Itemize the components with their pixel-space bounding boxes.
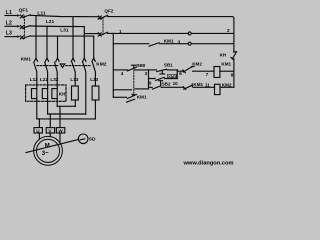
coil KM1 label (221, 62, 231, 67)
breaker QF1 pole 2 (20, 26, 23, 29)
thermal relay KH heater 3 (52, 89, 57, 99)
svg-text:KM1: KM1 (164, 39, 174, 44)
thermal relay KH label (59, 92, 66, 97)
svg-text:SB2: SB2 (162, 81, 171, 86)
contact blade KM1 bottom (127, 99, 135, 102)
terminal V box (46, 128, 54, 133)
wire resistor R1 down (74, 100, 76, 106)
wire drop L11 to KM1 pole1 (35, 17, 37, 59)
motor M outer circle (34, 136, 63, 165)
wire rail bottom stub (113, 96, 126, 98)
svg-text:KM2: KM2 (96, 61, 107, 67)
svg-text:QF2: QF2 (104, 8, 113, 13)
breaker QF2 label (104, 8, 113, 13)
svg-text:KM1: KM1 (137, 94, 147, 99)
wire node1 line (108, 32, 234, 34)
svg-text:KM1: KM1 (221, 62, 231, 67)
contactor KM2 label (96, 61, 107, 67)
contact KH label (220, 52, 227, 57)
wire node3 vertical (148, 70, 150, 89)
resistor R2 (92, 86, 99, 100)
node L31 label (60, 27, 69, 33)
wire left rail (112, 33, 114, 97)
motor M inner circle (36, 139, 59, 162)
node connector circle top (188, 32, 191, 35)
node L3 arrowhead (17, 35, 20, 38)
wire drop L11 to KM2 pole1 (72, 17, 74, 59)
svg-text:L22: L22 (40, 77, 48, 82)
node L11 label (37, 10, 45, 16)
svg-text:L13: L13 (70, 77, 78, 82)
node 8 label (231, 73, 234, 78)
svg-text:L11: L11 (37, 10, 45, 16)
breaker QF1 pole 1 (20, 15, 23, 18)
contactor KM2 pole 2 (83, 58, 86, 61)
label L33 (90, 77, 98, 82)
label L13 (70, 77, 78, 82)
svg-text:9: 9 (149, 81, 152, 86)
contact blade SB0-NO (128, 95, 137, 99)
coil KM2 label (222, 83, 232, 88)
wire top rail to right (108, 17, 234, 53)
contactor KM2 pole 1 (71, 58, 74, 61)
node 6 label (179, 71, 182, 76)
wire drop L31 to KM1 pole3 (57, 36, 59, 58)
svg-text:KM1: KM1 (168, 75, 176, 79)
svg-text:KM2: KM2 (192, 62, 202, 67)
contact KM1 bottom label (137, 94, 147, 99)
svg-text:L3: L3 (6, 31, 12, 37)
wire L21 corner to QF2 feed (84, 27, 99, 59)
button SB2 NO contact (152, 86, 160, 89)
node L3 label (6, 31, 12, 37)
speed relay tick (80, 139, 85, 140)
wire right rail lower (233, 59, 235, 88)
wire L2 feed (5, 25, 17, 27)
node 11 label (205, 83, 210, 88)
node connector circle bottom (188, 42, 191, 45)
button SB1 label (164, 62, 173, 67)
svg-text:2: 2 (227, 28, 230, 33)
svg-text:7: 7 (206, 72, 209, 77)
shaft line to speed relay (26, 139, 78, 152)
node 10 label (173, 81, 179, 86)
wire to terminal W (59, 106, 61, 142)
svg-text:3: 3 (145, 71, 148, 76)
button SB2 label (162, 81, 171, 86)
wire crossover U (37, 118, 96, 120)
breaker QF2 pole 1 (98, 16, 101, 19)
contact KM1 self-hold blade (149, 43, 159, 47)
svg-text:L12: L12 (30, 77, 38, 82)
node 3 label (self-hold) (178, 40, 181, 45)
contact KM1 interlock label (193, 82, 203, 87)
svg-text:3: 3 (178, 40, 181, 45)
node 3 label (145, 71, 148, 76)
node L1 arrowhead (17, 14, 20, 17)
node 2 label (227, 28, 230, 33)
contact KH NC (234, 51, 237, 53)
wire to terminal V (49, 114, 51, 137)
node 7 label (206, 72, 209, 77)
breaker QF2 pole 2 (98, 33, 101, 36)
wire node6 vertical (176, 70, 178, 79)
contactor KM1 pole 1 (34, 58, 37, 61)
svg-text:11: 11 (205, 83, 210, 88)
motor 3~ label (42, 151, 49, 157)
terminal U box (34, 128, 42, 133)
wire self-hold branch (149, 78, 178, 80)
node L2 arrowhead (17, 25, 20, 28)
contact KM1 interlock NC (183, 87, 186, 90)
wire self-hold rung (113, 43, 234, 45)
svg-text:L1: L1 (6, 10, 12, 16)
wire L21 (30, 25, 84, 28)
svg-text:KM1: KM1 (193, 82, 203, 87)
contactor KM2 pole 3 (92, 58, 95, 61)
wire drop L31 to KM2 pole3 (93, 36, 95, 58)
thermal relay KH heater 2 (42, 89, 47, 99)
wire L11 (30, 15, 99, 16)
breaker QF1 pole 3 (20, 36, 23, 39)
interlock linkage dashes (37, 65, 58, 67)
motor M label (45, 144, 50, 150)
terminal W box (56, 128, 64, 133)
svg-text:3~: 3~ (42, 151, 49, 157)
wire SB0-NO stub (113, 89, 131, 91)
svg-text:W: W (58, 128, 63, 133)
breaker QF1 linkage (23, 16, 25, 39)
svg-text:L33: L33 (90, 77, 98, 82)
contact KM1 aux blade (156, 77, 165, 80)
speed relay SD circle (78, 134, 88, 144)
svg-text:L21: L21 (46, 19, 55, 25)
wire rung2 (149, 86, 215, 88)
wire resistor R2 down (94, 100, 96, 119)
wire crossover W (57, 105, 75, 107)
button SB0 NO head (131, 94, 135, 97)
contact KM1 aux boxed label (168, 74, 177, 78)
contactor KM1 pole 2 (45, 58, 48, 61)
thermal relay KH heater 1 (32, 89, 37, 99)
wire crossover V (48, 113, 86, 115)
wire drop L21 to KM1 pole2 (46, 27, 48, 59)
node L21 label (46, 19, 55, 25)
speed relay SD label (89, 137, 96, 143)
svg-text:SD: SD (89, 137, 96, 143)
svg-text:L32: L32 (50, 77, 58, 82)
svg-text:QF1: QF1 (19, 8, 29, 14)
wire L1 feed (5, 15, 17, 17)
wire to terminal U (38, 119, 40, 139)
wire L31 (30, 35, 93, 37)
breaker QF1 label (19, 8, 29, 14)
svg-text:4: 4 (121, 71, 124, 76)
svg-text:6: 6 (179, 71, 182, 76)
svg-text:KM2: KM2 (222, 83, 232, 88)
contactor KM1 pole 3 (56, 58, 59, 61)
thermal relay KH dashed box (26, 85, 66, 101)
button SB0 label (136, 63, 145, 68)
svg-text:1: 1 (119, 29, 122, 34)
svg-text:SB1: SB1 (164, 62, 173, 67)
node 4 label (121, 71, 124, 76)
coil KM1 (214, 67, 220, 78)
svg-text:KM1: KM1 (21, 57, 32, 63)
coil KM2 (215, 84, 221, 94)
wire rung1 coil branch (177, 70, 214, 72)
contact KM1 label (164, 39, 174, 44)
svg-text:SB0: SB0 (136, 63, 145, 68)
labels L12 L22 L32 (30, 77, 59, 82)
wire SB0-NO right segment (135, 88, 149, 90)
node L2 label (6, 20, 12, 26)
contactor KM1 label (21, 57, 32, 63)
resistor R1 (72, 86, 79, 100)
interlock triangle (60, 64, 65, 68)
button SB1 NO contact (157, 69, 167, 71)
contact KM2 interlock label (192, 62, 202, 67)
wire L3 feed (5, 36, 17, 38)
svg-text:L31: L31 (60, 27, 69, 33)
svg-text:L2: L2 (6, 20, 12, 26)
node 1 label (119, 29, 122, 34)
svg-text:KH: KH (59, 92, 66, 97)
contact KM2 interlock NC (183, 70, 186, 73)
svg-text:10: 10 (173, 81, 179, 86)
breaker QF2 linkage (102, 18, 104, 35)
node 9 label (149, 81, 152, 86)
wire SB0 linkage dashed (133, 70, 135, 93)
svg-text:KH: KH (220, 52, 227, 57)
button SB0 NC contact (128, 67, 137, 71)
svg-text:www.diangon.com: www.diangon.com (183, 161, 234, 167)
wire rung1 left (113, 69, 177, 71)
node L1 label (6, 10, 12, 16)
